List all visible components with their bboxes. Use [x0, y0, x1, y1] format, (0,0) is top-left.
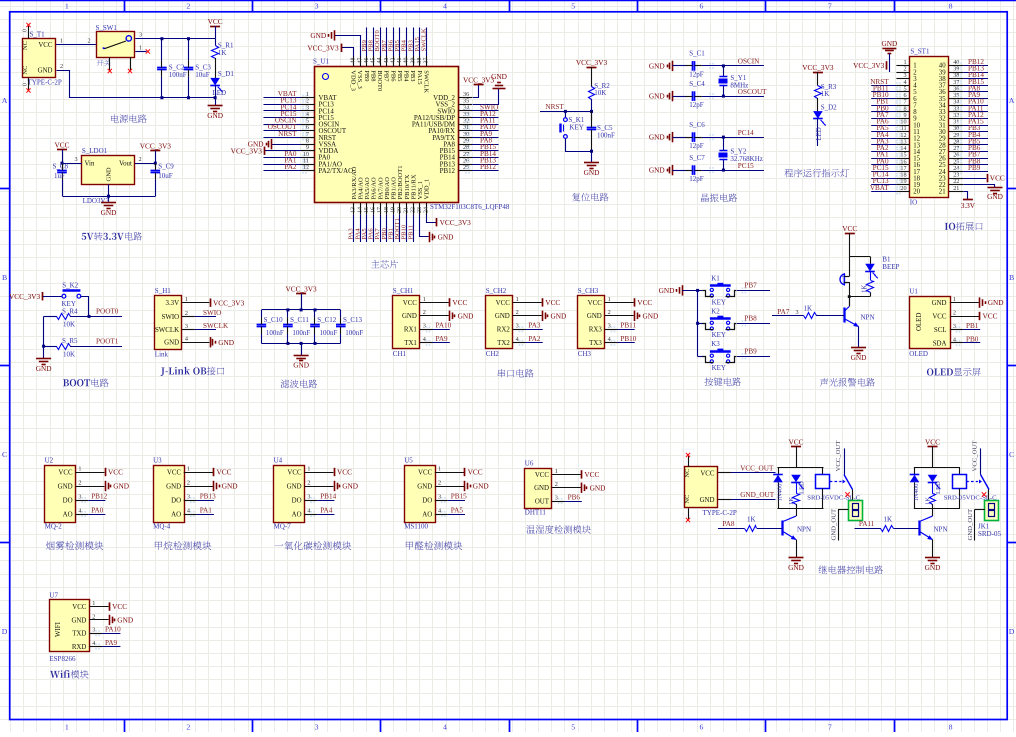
svg-text:PA9: PA9 — [105, 639, 118, 647]
svg-text:10uF: 10uF — [195, 71, 210, 79]
svg-text:BOOT0: BOOT0 — [376, 70, 383, 91]
svg-text:100nF: 100nF — [597, 132, 615, 140]
svg-text:IO: IO — [910, 199, 917, 207]
svg-text:VCC: VCC — [167, 469, 182, 476]
svg-text:GND: GND — [551, 311, 567, 320]
svg-text:VCC_3V3: VCC_3V3 — [140, 141, 172, 150]
svg-text:DO: DO — [171, 497, 181, 504]
svg-text:U1: U1 — [909, 288, 918, 296]
svg-text:C: C — [2, 450, 7, 459]
svg-text:MQ-2: MQ-2 — [45, 523, 63, 531]
svg-text:S_CH1: S_CH1 — [393, 287, 414, 295]
svg-text:1K: 1K — [747, 516, 756, 524]
svg-text:VCC_OUT: VCC_OUT — [972, 441, 979, 472]
svg-text:VDD_3: VDD_3 — [350, 70, 357, 91]
svg-text:GND: GND — [222, 482, 238, 491]
svg-text:BEEP: BEEP — [882, 263, 899, 271]
svg-text:TXD: TXD — [72, 631, 86, 638]
svg-text:C: C — [1009, 450, 1014, 459]
svg-text:1N4007: 1N4007 — [777, 480, 784, 502]
svg-text:VCC: VCC — [545, 298, 560, 307]
svg-text:K2: K2 — [711, 307, 720, 315]
svg-text:47: 47 — [357, 58, 363, 64]
svg-text:OLED: OLED — [909, 350, 928, 358]
svg-text:K3: K3 — [711, 340, 720, 348]
svg-text:VCC: VCC — [108, 468, 123, 477]
svg-text:S_C9: S_C9 — [158, 163, 174, 171]
svg-text:S_C13: S_C13 — [343, 316, 363, 324]
svg-text:GND: GND — [473, 482, 489, 491]
svg-text:VCC_3V3: VCC_3V3 — [285, 285, 317, 294]
svg-text:2: 2 — [953, 309, 956, 316]
svg-text:6: 6 — [700, 723, 704, 732]
svg-text:0: 0 — [23, 83, 29, 86]
svg-text:VCC_3V3: VCC_3V3 — [802, 63, 834, 72]
svg-text:24: 24 — [424, 207, 430, 213]
svg-text:S_C6: S_C6 — [689, 121, 705, 129]
svg-text:+: + — [841, 274, 844, 280]
svg-text:GND: GND — [700, 497, 715, 504]
svg-text:GND: GND — [402, 313, 417, 320]
svg-text:S_ST1: S_ST1 — [910, 48, 930, 56]
svg-text:B: B — [2, 273, 7, 282]
svg-text:VCC_OUT: VCC_OUT — [740, 464, 774, 472]
svg-text:AO: AO — [171, 511, 181, 518]
svg-text:12: 12 — [303, 164, 309, 171]
svg-text:TYPE-C-2P: TYPE-C-2P — [28, 79, 62, 87]
svg-text:2: 2 — [60, 63, 63, 70]
svg-text:1: 1 — [78, 465, 81, 472]
svg-text:1K: 1K — [218, 49, 227, 57]
svg-text:GND: GND — [342, 482, 358, 491]
svg-text:5: 5 — [571, 723, 575, 732]
svg-text:TYPE-C-2P: TYPE-C-2P — [703, 509, 737, 517]
svg-text:1: 1 — [438, 465, 441, 472]
svg-text:SWCLK: SWCLK — [203, 322, 229, 330]
svg-text:1K: 1K — [862, 285, 869, 293]
svg-text:3: 3 — [796, 309, 799, 316]
svg-text:LED: LED — [935, 481, 942, 494]
svg-text:GND: GND — [36, 364, 52, 373]
svg-text:TX3: TX3 — [589, 340, 602, 347]
svg-text:45: 45 — [371, 58, 377, 64]
svg-text:B: B — [1009, 273, 1014, 282]
svg-text:SDA: SDA — [933, 340, 947, 347]
svg-text:GND: GND — [851, 353, 867, 362]
svg-text:CH3: CH3 — [578, 350, 592, 358]
svg-text:D: D — [1009, 627, 1015, 636]
svg-text:12pF: 12pF — [689, 175, 704, 183]
svg-text:U2: U2 — [45, 456, 54, 464]
svg-text:OLED: OLED — [916, 313, 923, 331]
svg-text:1K: 1K — [884, 516, 893, 524]
svg-text:PA3: PA3 — [528, 322, 541, 330]
svg-text:GND: GND — [495, 313, 510, 320]
svg-text:4: 4 — [307, 507, 310, 514]
svg-text:3: 3 — [608, 323, 611, 330]
svg-text:GND: GND — [584, 168, 600, 177]
svg-text:17: 17 — [377, 207, 383, 213]
svg-text:Vin: Vin — [85, 161, 95, 168]
svg-text:POOT0: POOT0 — [96, 308, 119, 316]
svg-text:GND: GND — [491, 72, 507, 81]
svg-text:DHT11: DHT11 — [525, 509, 547, 517]
svg-text:U3: U3 — [153, 456, 162, 464]
svg-text:100nF: 100nF — [345, 329, 363, 337]
svg-text:PB5: PB5 — [396, 70, 403, 81]
svg-text:1: 1 — [307, 465, 310, 472]
svg-text:VCC: VCC — [112, 602, 127, 611]
svg-text:PA4: PA4 — [320, 506, 333, 514]
svg-text:GND: GND — [649, 92, 665, 101]
svg-text:GND: GND — [988, 298, 1004, 307]
svg-text:OUT: OUT — [535, 499, 550, 506]
svg-text:7: 7 — [828, 2, 832, 11]
svg-text:PB12: PB12 — [91, 492, 107, 500]
svg-text:DO: DO — [63, 497, 73, 504]
svg-text:12pF: 12pF — [689, 142, 704, 150]
svg-text:GND: GND — [113, 482, 129, 491]
svg-text:PB11: PB11 — [407, 225, 414, 239]
svg-text:NPN: NPN — [934, 526, 948, 534]
svg-text:10uF: 10uF — [158, 172, 173, 180]
svg-text:MS1100: MS1100 — [404, 523, 428, 531]
svg-text:3: 3 — [438, 493, 441, 500]
svg-text:VBAT: VBAT — [870, 184, 889, 192]
svg-text:GND: GND — [649, 133, 665, 142]
svg-text:GND: GND — [106, 167, 113, 181]
svg-text:14: 14 — [357, 207, 363, 213]
svg-text:S_C10: S_C10 — [264, 316, 284, 324]
svg-text:GND: GND — [101, 208, 117, 217]
svg-text:KEY: KEY — [712, 298, 726, 306]
svg-text:100nF: 100nF — [169, 71, 187, 79]
svg-text:1K: 1K — [821, 90, 830, 98]
svg-text:GND_OUT: GND_OUT — [830, 509, 837, 541]
svg-text:GND: GND — [659, 286, 675, 295]
svg-text:GND: GND — [925, 563, 941, 572]
svg-text:4: 4 — [187, 507, 190, 514]
svg-text:2: 2 — [187, 479, 190, 486]
svg-text:GND: GND — [58, 483, 73, 490]
svg-text:WIFI: WIFI — [55, 621, 62, 637]
svg-text:13: 13 — [351, 207, 357, 213]
svg-text:GND: GND — [587, 313, 602, 320]
svg-text:PA1: PA1 — [200, 506, 213, 514]
svg-text:S_T1: S_T1 — [30, 31, 46, 39]
svg-text:8MHz: 8MHz — [730, 81, 748, 89]
svg-text:PA2: PA2 — [528, 335, 541, 343]
svg-text:PB12: PB12 — [480, 163, 496, 171]
svg-text:GND: GND — [310, 31, 326, 40]
svg-text:GND: GND — [293, 361, 309, 370]
svg-text:PA9: PA9 — [436, 335, 449, 343]
svg-text:NC: NC — [684, 469, 691, 478]
svg-text:1: 1 — [187, 465, 190, 472]
svg-text:PB8: PB8 — [369, 70, 376, 81]
svg-text:PA5: PA5 — [451, 506, 464, 514]
svg-text:OSCIN: OSCIN — [738, 58, 760, 66]
svg-text:S_C8: S_C8 — [53, 163, 69, 171]
svg-text:S_C1: S_C1 — [689, 50, 705, 58]
svg-text:Link: Link — [155, 351, 169, 359]
svg-text:1uF: 1uF — [54, 172, 65, 180]
svg-text:PB4: PB4 — [403, 70, 410, 82]
svg-text:22: 22 — [410, 207, 416, 213]
svg-text:AO: AO — [292, 511, 302, 518]
svg-text:VCC_3V3: VCC_3V3 — [307, 43, 339, 52]
svg-text:SWCLK: SWCLK — [155, 327, 179, 334]
svg-text:RX2: RX2 — [497, 327, 511, 334]
svg-text:PB9: PB9 — [363, 70, 370, 81]
svg-text:S_C11: S_C11 — [290, 316, 309, 324]
svg-text:VCC: VCC — [588, 300, 603, 307]
svg-text:VCC: VCC — [535, 472, 550, 479]
svg-text:3: 3 — [78, 493, 81, 500]
svg-text:RX1: RX1 — [404, 327, 418, 334]
svg-text:LED: LED — [213, 89, 227, 97]
svg-text:10K: 10K — [63, 350, 75, 358]
svg-text:1: 1 — [139, 44, 142, 51]
svg-text:21: 21 — [939, 189, 946, 196]
svg-text:VCC: VCC — [983, 312, 998, 321]
svg-text:3: 3 — [307, 493, 310, 500]
svg-text:NRST: NRST — [545, 103, 564, 111]
svg-text:PB7: PB7 — [383, 70, 390, 82]
svg-text:S_SW1: S_SW1 — [96, 24, 118, 32]
svg-text:4: 4 — [443, 2, 447, 11]
svg-text:1N4007: 1N4007 — [913, 480, 920, 502]
svg-text:PC14: PC14 — [738, 129, 754, 137]
svg-text:VCC: VCC — [496, 300, 511, 307]
svg-text:VCC: VCC — [842, 224, 857, 233]
svg-text:S_C4: S_C4 — [689, 80, 705, 88]
svg-text:43: 43 — [384, 58, 390, 64]
svg-text:12pF: 12pF — [689, 71, 704, 79]
svg-text:41: 41 — [397, 58, 403, 64]
svg-text:1: 1 — [516, 296, 519, 303]
svg-text:3: 3 — [315, 2, 319, 11]
svg-text:2: 2 — [88, 37, 91, 44]
svg-text:VCC: VCC — [337, 468, 352, 477]
svg-text:19: 19 — [391, 207, 397, 213]
svg-text:S_C12: S_C12 — [317, 316, 337, 324]
svg-text:STM32F103C8T6_LQFP48: STM32F103C8T6_LQFP48 — [430, 203, 510, 211]
svg-text:U5: U5 — [404, 456, 413, 464]
svg-text:VCC: VCC — [208, 17, 223, 26]
svg-text:CH2: CH2 — [486, 350, 500, 358]
svg-text:GND: GND — [932, 300, 947, 307]
svg-text:GND: GND — [71, 617, 86, 624]
svg-text:PB6: PB6 — [568, 494, 581, 502]
svg-text:PA15: PA15 — [416, 70, 423, 84]
svg-text:3: 3 — [423, 323, 426, 330]
svg-text:GND: GND — [438, 233, 454, 242]
svg-text:VCC_3V3: VCC_3V3 — [213, 298, 245, 307]
svg-text:4: 4 — [438, 507, 441, 514]
svg-text:SWCLK: SWCLK — [422, 70, 429, 93]
svg-text:NC: NC — [684, 495, 691, 504]
svg-text:PA2: PA2 — [284, 163, 297, 171]
svg-text:AO: AO — [63, 511, 73, 518]
svg-text:TX2: TX2 — [497, 340, 510, 347]
svg-text:10K: 10K — [594, 89, 606, 97]
svg-text:PB7: PB7 — [744, 282, 757, 290]
svg-text:GND: GND — [649, 62, 665, 71]
svg-text:PB8: PB8 — [744, 315, 757, 323]
svg-text:2: 2 — [186, 723, 190, 732]
svg-text:3: 3 — [315, 723, 319, 732]
svg-text:1: 1 — [65, 2, 69, 11]
svg-text:3.3V: 3.3V — [961, 201, 976, 210]
svg-text:NC: NC — [22, 41, 29, 50]
svg-text:GND: GND — [881, 39, 897, 48]
svg-text:3: 3 — [139, 31, 142, 38]
svg-text:2: 2 — [307, 479, 310, 486]
svg-text:S_R5: S_R5 — [62, 337, 78, 345]
svg-text:PB11: PB11 — [620, 322, 636, 330]
svg-text:20: 20 — [913, 189, 920, 196]
svg-text:S_R4: S_R4 — [62, 307, 78, 315]
svg-text:GND: GND — [207, 111, 223, 120]
svg-text:S_K2: S_K2 — [62, 282, 78, 290]
svg-text:VCC_3V3: VCC_3V3 — [463, 76, 495, 85]
svg-text:K1: K1 — [711, 274, 720, 282]
svg-text:RXD: RXD — [72, 644, 87, 651]
svg-text:S_CH2: S_CH2 — [486, 287, 507, 295]
svg-text:4: 4 — [78, 507, 81, 514]
svg-text:VCC: VCC — [217, 468, 232, 477]
svg-text:GND: GND — [590, 483, 606, 492]
svg-text:S_D2: S_D2 — [821, 103, 837, 111]
svg-text:A: A — [1009, 96, 1015, 105]
svg-text:PB14: PB14 — [320, 492, 336, 500]
svg-text:38: 38 — [417, 58, 423, 64]
svg-text:NPN: NPN — [797, 526, 811, 534]
svg-text:GND: GND — [534, 485, 549, 492]
svg-text:POOT1: POOT1 — [96, 337, 119, 345]
svg-text:PB9: PB9 — [744, 347, 757, 355]
svg-text:GND: GND — [218, 338, 234, 347]
svg-text:1: 1 — [423, 296, 426, 303]
svg-text:46: 46 — [364, 58, 370, 64]
svg-text:5: 5 — [571, 2, 575, 11]
svg-text:48: 48 — [351, 58, 357, 64]
svg-text:32.768KHz: 32.768KHz — [730, 155, 762, 163]
svg-text:S_LDO1: S_LDO1 — [82, 147, 108, 155]
svg-text:3: 3 — [75, 156, 78, 163]
svg-text:1K: 1K — [804, 304, 813, 312]
svg-text:S_CH3: S_CH3 — [578, 287, 599, 295]
svg-text:DO: DO — [422, 497, 432, 504]
svg-text:VCC_3V3: VCC_3V3 — [576, 58, 608, 67]
svg-text:16: 16 — [371, 207, 377, 213]
svg-text:VCC: VCC — [54, 141, 69, 150]
svg-text:PA10: PA10 — [436, 322, 452, 330]
svg-text:18: 18 — [384, 207, 390, 213]
svg-text:3: 3 — [185, 323, 188, 330]
svg-text:PA10: PA10 — [105, 626, 121, 634]
svg-text:3: 3 — [187, 493, 190, 500]
svg-text:S_H1: S_H1 — [155, 287, 171, 295]
svg-text:KEY: KEY — [712, 364, 726, 372]
svg-text:ESP8266: ESP8266 — [49, 655, 76, 663]
svg-text:1: 1 — [608, 296, 611, 303]
svg-text:D: D — [2, 627, 8, 636]
svg-text:1: 1 — [555, 468, 558, 475]
svg-text:15: 15 — [364, 207, 370, 213]
svg-text:Vout: Vout — [119, 161, 132, 168]
svg-text:MQ-4: MQ-4 — [153, 523, 171, 531]
svg-text:0: 0 — [23, 29, 29, 32]
svg-text:44: 44 — [377, 58, 383, 64]
svg-text:NC: NC — [22, 66, 29, 75]
svg-text:PB3: PB3 — [409, 70, 416, 81]
svg-text:GND: GND — [649, 166, 665, 175]
svg-text:NRST: NRST — [278, 130, 297, 138]
svg-text:GND: GND — [788, 563, 804, 572]
svg-text:1: 1 — [65, 723, 69, 732]
svg-text:SCL: SCL — [934, 327, 947, 334]
svg-text:12pF: 12pF — [689, 101, 704, 109]
svg-text:VCC_3V3: VCC_3V3 — [231, 146, 263, 155]
svg-text:GND: GND — [117, 616, 133, 625]
svg-text:8: 8 — [949, 2, 953, 11]
svg-text:VCC: VCC — [38, 42, 53, 49]
svg-text:S_U1: S_U1 — [313, 58, 329, 66]
svg-text:TX1: TX1 — [404, 340, 417, 347]
svg-text:20: 20 — [900, 185, 906, 192]
svg-text:SRD-05: SRD-05 — [978, 530, 1001, 538]
svg-text:40: 40 — [404, 58, 410, 64]
svg-text:PB13: PB13 — [200, 492, 216, 500]
svg-text:SWIO: SWIO — [203, 309, 221, 317]
svg-text:PA0: PA0 — [91, 506, 104, 514]
svg-text:VCC_OUT: VCC_OUT — [835, 441, 842, 472]
svg-text:PA2/TX/AO: PA2/TX/AO — [319, 168, 354, 175]
svg-text:6: 6 — [700, 2, 704, 11]
svg-text:2: 2 — [186, 2, 190, 11]
svg-text:VCC_3V3: VCC_3V3 — [440, 218, 472, 227]
svg-text:GND: GND — [38, 68, 53, 75]
svg-text:39: 39 — [410, 58, 416, 64]
svg-text:RX3: RX3 — [589, 327, 603, 334]
svg-text:PA8: PA8 — [722, 520, 735, 528]
svg-text:VCC: VCC — [468, 468, 483, 477]
svg-text:2: 2 — [139, 156, 142, 163]
svg-text:LED: LED — [816, 127, 823, 140]
svg-text:VSS_3: VSS_3 — [356, 70, 363, 88]
svg-text:PB12: PB12 — [440, 168, 456, 175]
svg-text:2: 2 — [78, 479, 81, 486]
svg-text:NPN: NPN — [861, 313, 875, 321]
svg-text:VCC: VCC — [58, 469, 73, 476]
svg-text:VCC_3V3: VCC_3V3 — [9, 292, 41, 301]
svg-text:VCC: VCC — [788, 437, 803, 446]
svg-text:20: 20 — [397, 207, 403, 213]
svg-text:U4: U4 — [274, 456, 283, 464]
svg-text:3: 3 — [92, 627, 95, 634]
svg-text:3: 3 — [953, 323, 956, 330]
svg-text:GND_OUT: GND_OUT — [740, 491, 775, 499]
svg-text:LED: LED — [799, 481, 806, 494]
svg-text:37: 37 — [424, 58, 430, 64]
svg-text:PB6: PB6 — [389, 70, 396, 82]
svg-text:DO: DO — [292, 497, 302, 504]
svg-text:LDO3V3: LDO3V3 — [83, 197, 110, 205]
svg-text:23: 23 — [417, 207, 423, 213]
svg-text:A: A — [2, 96, 8, 105]
